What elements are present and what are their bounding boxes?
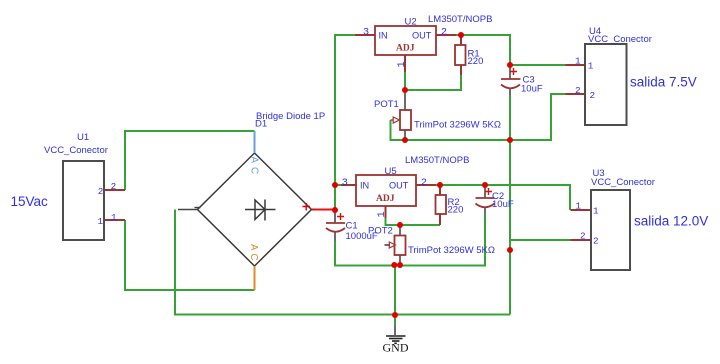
svg-text:OUT: OUT bbox=[412, 31, 432, 41]
svg-text:1: 1 bbox=[593, 206, 599, 217]
svg-text:1: 1 bbox=[575, 56, 581, 67]
svg-text:2: 2 bbox=[98, 186, 104, 197]
svg-text:LM350T/NOPB: LM350T/NOPB bbox=[428, 14, 492, 25]
svg-text:salida 7.5V: salida 7.5V bbox=[630, 75, 697, 90]
svg-text:10uF: 10uF bbox=[492, 199, 514, 210]
svg-text:2: 2 bbox=[593, 236, 599, 247]
svg-text:3: 3 bbox=[342, 178, 348, 189]
svg-text:2: 2 bbox=[575, 85, 581, 96]
svg-text:2: 2 bbox=[421, 178, 427, 189]
svg-text:U1: U1 bbox=[77, 132, 89, 143]
svg-text:salida 12.0V: salida 12.0V bbox=[634, 214, 708, 229]
svg-text:ADJ: ADJ bbox=[396, 44, 415, 54]
svg-text:1: 1 bbox=[397, 61, 408, 67]
svg-text:ADJ: ADJ bbox=[376, 194, 395, 204]
svg-text:GND: GND bbox=[383, 341, 409, 355]
svg-text:3: 3 bbox=[363, 27, 369, 38]
svg-text:2: 2 bbox=[111, 181, 117, 192]
svg-text:LM350T/NOPB: LM350T/NOPB bbox=[405, 155, 469, 166]
svg-text:220: 220 bbox=[448, 205, 464, 216]
svg-text:2: 2 bbox=[590, 90, 596, 101]
svg-text:1: 1 bbox=[576, 201, 582, 212]
svg-text:AC: AC bbox=[249, 157, 260, 179]
svg-text:1: 1 bbox=[111, 212, 117, 223]
svg-text:D1: D1 bbox=[255, 119, 267, 130]
svg-text:OUT: OUT bbox=[389, 181, 409, 191]
svg-text:TrimPot 3296W 5KΩ: TrimPot 3296W 5KΩ bbox=[408, 245, 495, 256]
svg-text:U5: U5 bbox=[385, 166, 397, 177]
svg-text:IN: IN bbox=[360, 181, 369, 191]
svg-text:VCC_Conector: VCC_Conector bbox=[588, 34, 652, 45]
svg-text:TrimPot 3296W 5KΩ: TrimPot 3296W 5KΩ bbox=[414, 120, 501, 131]
svg-text:220: 220 bbox=[468, 56, 484, 67]
svg-text:VCC_Conector: VCC_Conector bbox=[44, 145, 108, 156]
svg-text:POT1: POT1 bbox=[374, 99, 399, 110]
svg-text:2: 2 bbox=[441, 27, 447, 38]
svg-text:AC: AC bbox=[248, 244, 259, 264]
svg-text:1: 1 bbox=[588, 61, 594, 72]
svg-text:VCC_Conector: VCC_Conector bbox=[591, 177, 655, 188]
svg-text:15Vac: 15Vac bbox=[11, 194, 49, 209]
svg-text:IN: IN bbox=[379, 31, 388, 41]
svg-text:U2: U2 bbox=[405, 17, 417, 28]
svg-text:2: 2 bbox=[580, 231, 586, 242]
svg-text:1: 1 bbox=[377, 211, 388, 217]
svg-text:C1: C1 bbox=[346, 221, 358, 232]
svg-text:10uF: 10uF bbox=[521, 84, 543, 95]
svg-text:POT2: POT2 bbox=[368, 226, 393, 237]
svg-text:1: 1 bbox=[98, 216, 104, 227]
